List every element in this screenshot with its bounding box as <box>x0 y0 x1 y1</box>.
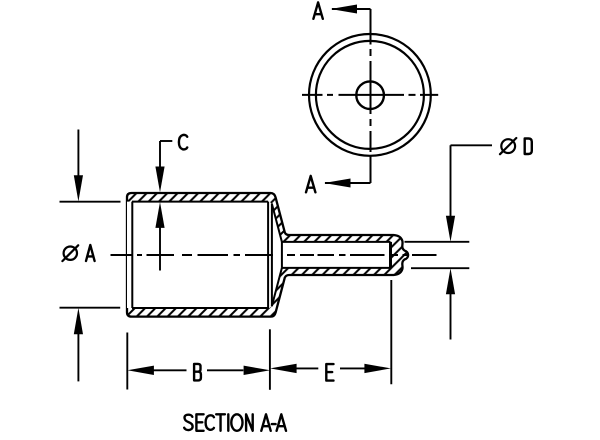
nozzle bore interior (white) <box>282 242 391 268</box>
cavity top inner surface <box>132 201 268 203</box>
label diameter A <box>64 247 77 260</box>
section view body outline with hatch fill <box>127 193 408 317</box>
section arrow bottom <box>325 182 371 184</box>
bore end wall <box>389 242 392 268</box>
cavity end wall inner edge <box>271 204 273 306</box>
top view center hole circle <box>356 81 384 109</box>
label C <box>179 135 187 150</box>
dim C arrow lower <box>159 227 161 271</box>
top view vertical centerline (cutting plane A-A) <box>370 9 372 183</box>
dim B extension line left <box>126 333 128 390</box>
cavity end wall <box>267 202 269 308</box>
dim C leader elbow <box>160 140 172 142</box>
dim E arrow left <box>296 367 318 369</box>
dim B arrow left <box>153 369 186 371</box>
cavity bottom inner surface <box>132 307 268 309</box>
dim D leader <box>451 145 493 216</box>
funnel upper cone line <box>272 204 282 242</box>
label E <box>326 364 333 381</box>
main view centerline <box>111 254 437 256</box>
dim A arrow bottom <box>77 334 79 382</box>
title SECTION A-A <box>184 414 286 431</box>
dim A extension line bottom <box>60 307 121 309</box>
dim E arrow right <box>340 367 365 369</box>
bore entrance edge <box>281 242 283 268</box>
section arrow top <box>332 8 371 10</box>
dim C arrow upper <box>159 141 161 168</box>
label B <box>194 364 201 381</box>
dim E extension line right <box>390 280 392 384</box>
dim D extension line top <box>405 241 470 243</box>
dim D extension line bottom <box>411 267 469 269</box>
label diameter D <box>501 139 515 153</box>
label A top <box>313 2 322 18</box>
rim inner edge line <box>131 202 133 308</box>
bore bottom surface <box>282 267 391 269</box>
dim A arrow top <box>77 130 79 177</box>
dim B/E shared extension line <box>269 329 271 390</box>
top view horizontal centerline <box>302 94 438 96</box>
dim D arrow bottom <box>450 294 452 340</box>
section cavity interior (white) <box>127 202 282 308</box>
label A bottom <box>306 176 315 192</box>
funnel lower cone line <box>272 268 282 306</box>
bore top surface <box>282 241 391 243</box>
top view inner rim circle <box>316 41 424 149</box>
dim A extension line top <box>60 201 121 203</box>
top view outer circle <box>309 34 431 156</box>
dim B arrow right <box>207 369 243 371</box>
dim D arrow top <box>446 216 455 242</box>
